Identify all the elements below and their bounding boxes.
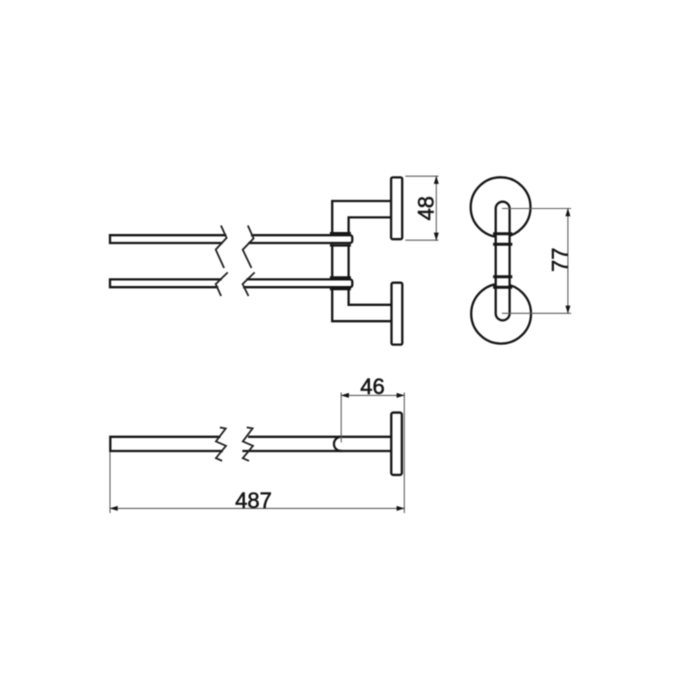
- side view: lower arm right piece mask: [244, 278, 354, 288]
- dim 487: left extension line: [109, 453, 111, 513]
- dim 46: dimension line: [341, 394, 404, 396]
- dim 48: arrow down: [434, 233, 439, 241]
- plan view: wall plate: [391, 413, 402, 475]
- side view: upper arm break mark right: [243, 226, 254, 267]
- side view: upper arm break mark left: [216, 226, 227, 267]
- dim 48: arrow up: [434, 176, 439, 184]
- dim 487: dimension line: [110, 507, 404, 509]
- plan view: arm left piece: [110, 437, 221, 451]
- side view: upper arm left piece: [110, 235, 225, 243]
- side view: lower arm break mark left: [216, 273, 227, 295]
- side view: bracket tube outer contour (upper bend, post, lower bend): [332, 201, 391, 321]
- dim 77: dimension line: [567, 209, 569, 314]
- front view: collar band 1: [495, 232, 511, 235]
- plan view: break mark right: [243, 428, 253, 461]
- dim 48: top extension line: [406, 175, 438, 177]
- side view: upper wall plate: [391, 177, 402, 239]
- plan view: swivel joint arc: [334, 437, 341, 451]
- side view: lower swivel collar top: [331, 276, 350, 278]
- side view: bracket tube inner contour: [349, 217, 391, 304]
- dim 46: right extension line (shared with 487): [403, 393, 405, 513]
- plan view: arm right piece bottom edge: [244, 450, 392, 452]
- dim 77: arrow down: [565, 306, 570, 314]
- front view: collar band 3: [495, 275, 511, 278]
- side view: upper swivel collar bottom: [331, 244, 350, 246]
- svg-text:46: 46: [360, 374, 384, 399]
- svg-text:77: 77: [547, 248, 572, 272]
- side view: lower wall plate: [392, 283, 403, 345]
- side view: upper swivel collar top: [331, 232, 350, 234]
- dim 77: bottom leader line: [503, 312, 571, 314]
- dim 77: arrow up: [565, 208, 570, 216]
- side view: upper arm right piece: [250, 235, 353, 243]
- side view: lower arm left piece: [110, 279, 221, 287]
- front view: collar band 4: [495, 286, 511, 289]
- dim 48: bottom extension line: [406, 239, 438, 241]
- dim 46: left extension line into joint axis: [340, 393, 342, 442]
- svg-text:487: 487: [235, 488, 272, 513]
- side view: lower arm break mark right: [243, 273, 254, 295]
- front view: vertical post capsule: [496, 202, 510, 321]
- front view: top rosette circle: [471, 177, 531, 237]
- side view: upper arm right piece mask: [249, 234, 353, 244]
- dim 46: arrow right: [397, 393, 405, 398]
- front view: bottom rosette circle: [471, 284, 531, 344]
- dim 77: top leader line: [503, 208, 571, 210]
- plan view: arm right piece top edge: [249, 436, 391, 438]
- svg-text:48: 48: [413, 196, 438, 220]
- dim 48: dimension line: [435, 176, 437, 240]
- front view: collar band 2: [495, 243, 511, 246]
- dim 487: arrow left: [110, 506, 118, 511]
- side view: lower arm right piece: [244, 279, 352, 287]
- plan view: break mark left: [216, 428, 226, 461]
- side view: lower swivel collar bottom: [331, 288, 350, 290]
- dim 487: arrow right: [397, 506, 405, 511]
- plan view: arm right piece mask: [244, 436, 392, 453]
- dim 46: arrow left: [341, 393, 349, 398]
